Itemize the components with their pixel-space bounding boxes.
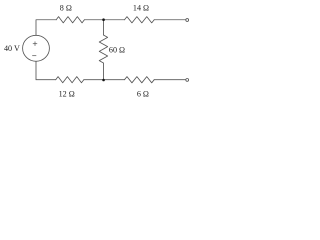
resistor 6 ohm (bottom right) — [125, 77, 155, 83]
label 40 V — [4, 44, 20, 53]
label 8 ohm — [60, 4, 72, 13]
wire: 60 ohm down to bottom node — [102, 63, 104, 80]
terminal a (top right, open circle) — [186, 19, 189, 22]
wire: source + terminal up to top-left corner, right to 8-ohm resistor — [36, 20, 56, 36]
polarity - of source — [32, 55, 36, 57]
wire: top node down to 60 ohm — [102, 20, 104, 35]
resistor 60 ohm (middle, vertical) — [99, 35, 107, 63]
wire: 8 ohm to top node — [84, 19, 103, 21]
wire: source - terminal down to bottom-left corner, right to 12-ohm resistor — [36, 61, 56, 79]
resistor 12 ohm (bottom left) — [56, 77, 84, 83]
wire: 12 ohm to bottom node — [84, 79, 104, 81]
node A (top junction dot) — [102, 18, 105, 21]
label 6 ohm — [137, 90, 149, 99]
svg-text:12 Ω: 12 Ω — [59, 90, 75, 99]
svg-text:8 Ω: 8 Ω — [60, 4, 72, 13]
resistor 14 ohm (top right) — [125, 17, 155, 23]
svg-text:14 Ω: 14 Ω — [133, 4, 149, 13]
node B (bottom junction dot) — [102, 79, 105, 82]
svg-text:6 Ω: 6 Ω — [137, 90, 149, 99]
label 60 ohm — [109, 46, 125, 55]
terminal b (bottom right, open circle) — [186, 79, 189, 82]
svg-text:40 V: 40 V — [4, 44, 20, 53]
resistor 8 ohm (top left) — [56, 17, 84, 23]
svg-text:60 Ω: 60 Ω — [109, 46, 125, 55]
polarity + of source — [33, 42, 37, 46]
wire: top node to 14 ohm — [103, 19, 124, 21]
voltage source V1 (40 V) circle — [23, 35, 50, 61]
wire: 6 ohm to bottom-right open terminal — [154, 79, 186, 81]
label 14 ohm — [133, 4, 149, 13]
label 12 ohm — [59, 90, 75, 99]
wire: bottom node to 6 ohm — [103, 79, 124, 81]
wire: 14 ohm to top-right open terminal — [154, 19, 186, 21]
